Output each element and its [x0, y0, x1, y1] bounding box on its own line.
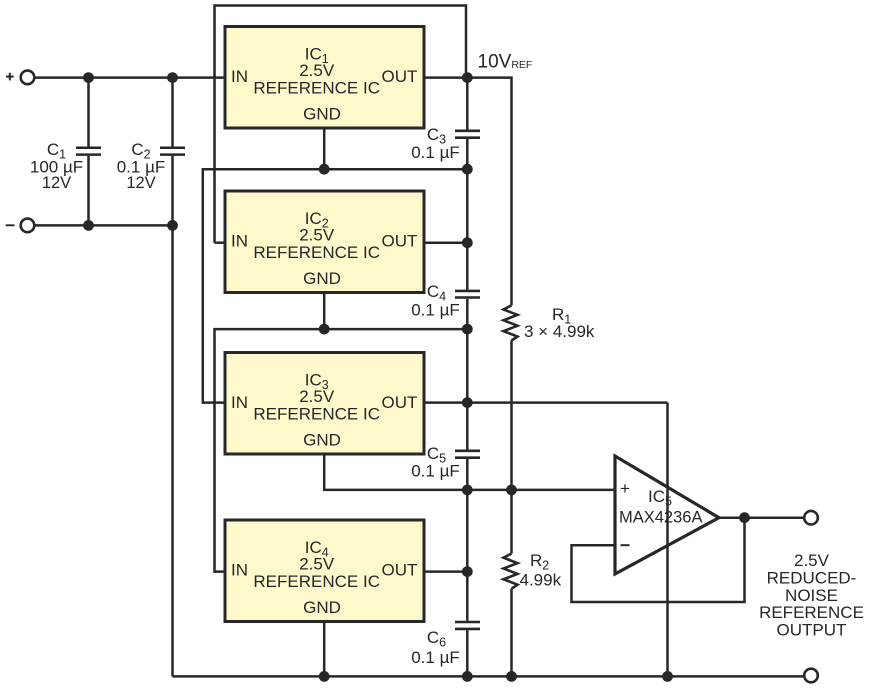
- wire IC4 OUT: [424, 570, 467, 573]
- svg-text:0.1 µF: 0.1 µF: [411, 143, 460, 162]
- wire IC4 GND pin: [323, 622, 326, 676]
- svg-text:NOISE: NOISE: [785, 586, 838, 605]
- svg-text:IN: IN: [231, 393, 248, 412]
- wire divider bottom: [510, 589, 513, 677]
- label output description: [759, 551, 864, 640]
- svg-text:IN: IN: [231, 67, 248, 86]
- svg-text:OUTPUT: OUTPUT: [777, 621, 847, 640]
- label C1 value: [30, 140, 83, 192]
- svg-text:REDUCED-: REDUCED-: [767, 568, 857, 587]
- svg-text:MAX4236A: MAX4236A: [619, 509, 702, 527]
- wire divider middle: [510, 341, 513, 554]
- capacitor C1: [76, 78, 101, 226]
- capacitor C5: [455, 451, 480, 458]
- IC4 2.5V reference box: [225, 520, 424, 622]
- junction op-amp supply bottom: [662, 671, 673, 682]
- svg-text:GND: GND: [303, 269, 341, 288]
- wire IC1 GND pin: [323, 128, 326, 169]
- capacitor C4: [455, 291, 480, 298]
- svg-text:REFERENCE IC: REFERENCE IC: [253, 405, 380, 424]
- wire IC2 IN stub: [215, 241, 226, 244]
- junction divider tap: [506, 485, 517, 496]
- wire 10VREF to divider top: [467, 78, 511, 306]
- capacitor C6: [455, 622, 480, 629]
- svg-text:12V: 12V: [126, 174, 155, 192]
- wire IC1 OUT: [424, 76, 467, 79]
- label C4 value: [411, 282, 460, 320]
- wire op-amp output: [719, 516, 805, 519]
- junction IC3 OUT: [462, 397, 473, 408]
- wire + input rail: [34, 76, 225, 79]
- wire IC3 OUT to op-amp supply: [424, 401, 668, 404]
- junction IC2 GND pin: [319, 324, 330, 335]
- junction C2 bottom: [167, 220, 178, 231]
- junction C1 top: [83, 72, 94, 83]
- svg-text:OUT: OUT: [382, 393, 418, 412]
- terminal output return: [804, 669, 818, 683]
- svg-text:12V: 12V: [42, 174, 71, 192]
- terminal + input: [6, 71, 34, 85]
- junction C1 bottom: [83, 220, 94, 231]
- junction node 10VREF: [462, 72, 473, 83]
- svg-text:OUT: OUT: [382, 232, 418, 251]
- resistor R1: [504, 305, 518, 340]
- wire bypass bus x=467: [466, 78, 469, 677]
- svg-text:3 × 4.99k: 3 × 4.99k: [524, 322, 595, 341]
- IC3 2.5V reference box: [225, 353, 424, 455]
- wire - input rail: [34, 224, 173, 227]
- svg-text:0.1 µF: 0.1 µF: [411, 301, 460, 320]
- svg-text:GND: GND: [303, 431, 341, 450]
- wire IC3 GND to op-amp + input: [324, 454, 615, 490]
- wire left vertical to bottom rail: [171, 225, 174, 676]
- svg-text:0.1 µF: 0.1 µF: [411, 462, 460, 481]
- junction IC4 OUT: [462, 566, 473, 577]
- junction C2 top: [167, 72, 178, 83]
- capacitor C2: [160, 78, 185, 226]
- junction IC1 GND bus: [462, 164, 473, 175]
- IC2 2.5V reference box: [225, 191, 424, 293]
- label C2 value: [117, 140, 166, 192]
- terminal output: [804, 511, 818, 525]
- svg-text:2.5V: 2.5V: [299, 61, 335, 80]
- junction op-amp output: [739, 512, 750, 523]
- label R2 value: [520, 551, 562, 590]
- svg-text:2.5V: 2.5V: [794, 551, 830, 570]
- wire IC1 OUT to IC2 IN top loop: [215, 6, 467, 243]
- wire bottom rail: [173, 675, 805, 678]
- svg-text:IN: IN: [231, 232, 248, 251]
- junction C6 bottom: [462, 671, 473, 682]
- svg-text:OUT: OUT: [382, 561, 418, 580]
- svg-text:GND: GND: [303, 598, 341, 617]
- capacitor C3: [455, 131, 480, 138]
- label C5 value: [411, 444, 460, 481]
- svg-text:2.5V: 2.5V: [299, 555, 335, 574]
- svg-text:OUT: OUT: [382, 67, 418, 86]
- label C6 value: [411, 628, 460, 667]
- svg-text:2.5V: 2.5V: [299, 226, 335, 245]
- svg-text:4.99k: 4.99k: [520, 571, 562, 590]
- svg-text:+: +: [620, 479, 630, 498]
- svg-text:0.1 µF: 0.1 µF: [411, 648, 460, 667]
- svg-text:IN: IN: [231, 561, 248, 580]
- wire IC2 GND rail to IC4 IN: [215, 329, 468, 571]
- op-amp IC5 labels: [619, 479, 702, 545]
- svg-text:GND: GND: [303, 105, 341, 124]
- IC1 2.5V reference box: [225, 27, 424, 129]
- wire IC1 GND rail to IC3 IN: [203, 169, 468, 402]
- junction IC4 GND pin: [319, 671, 330, 682]
- op-amp IC5: [615, 456, 719, 574]
- junction IC3 GND bus: [462, 485, 473, 496]
- wire op-amp - input stub and feedback loop: [572, 518, 745, 602]
- svg-text:REFERENCE IC: REFERENCE IC: [253, 243, 380, 262]
- junction R2 bottom: [506, 671, 517, 682]
- svg-text:REFERENCE: REFERENCE: [759, 603, 864, 622]
- junction IC1 GND pin: [319, 164, 330, 175]
- svg-text:2.5V: 2.5V: [299, 387, 335, 406]
- resistor R2: [504, 554, 518, 589]
- label R1 value: [524, 305, 595, 341]
- wire op-amp supply vertical: [666, 403, 669, 677]
- junction IC2 GND bus: [462, 324, 473, 335]
- terminal - input: [6, 219, 35, 233]
- junction IC2 OUT: [462, 237, 473, 248]
- svg-text:REFERENCE IC: REFERENCE IC: [253, 79, 380, 98]
- wire IC2 GND pin: [323, 293, 326, 329]
- label C3 value: [411, 125, 460, 162]
- svg-text:REFERENCE IC: REFERENCE IC: [253, 572, 380, 591]
- wire IC2 OUT: [424, 241, 467, 244]
